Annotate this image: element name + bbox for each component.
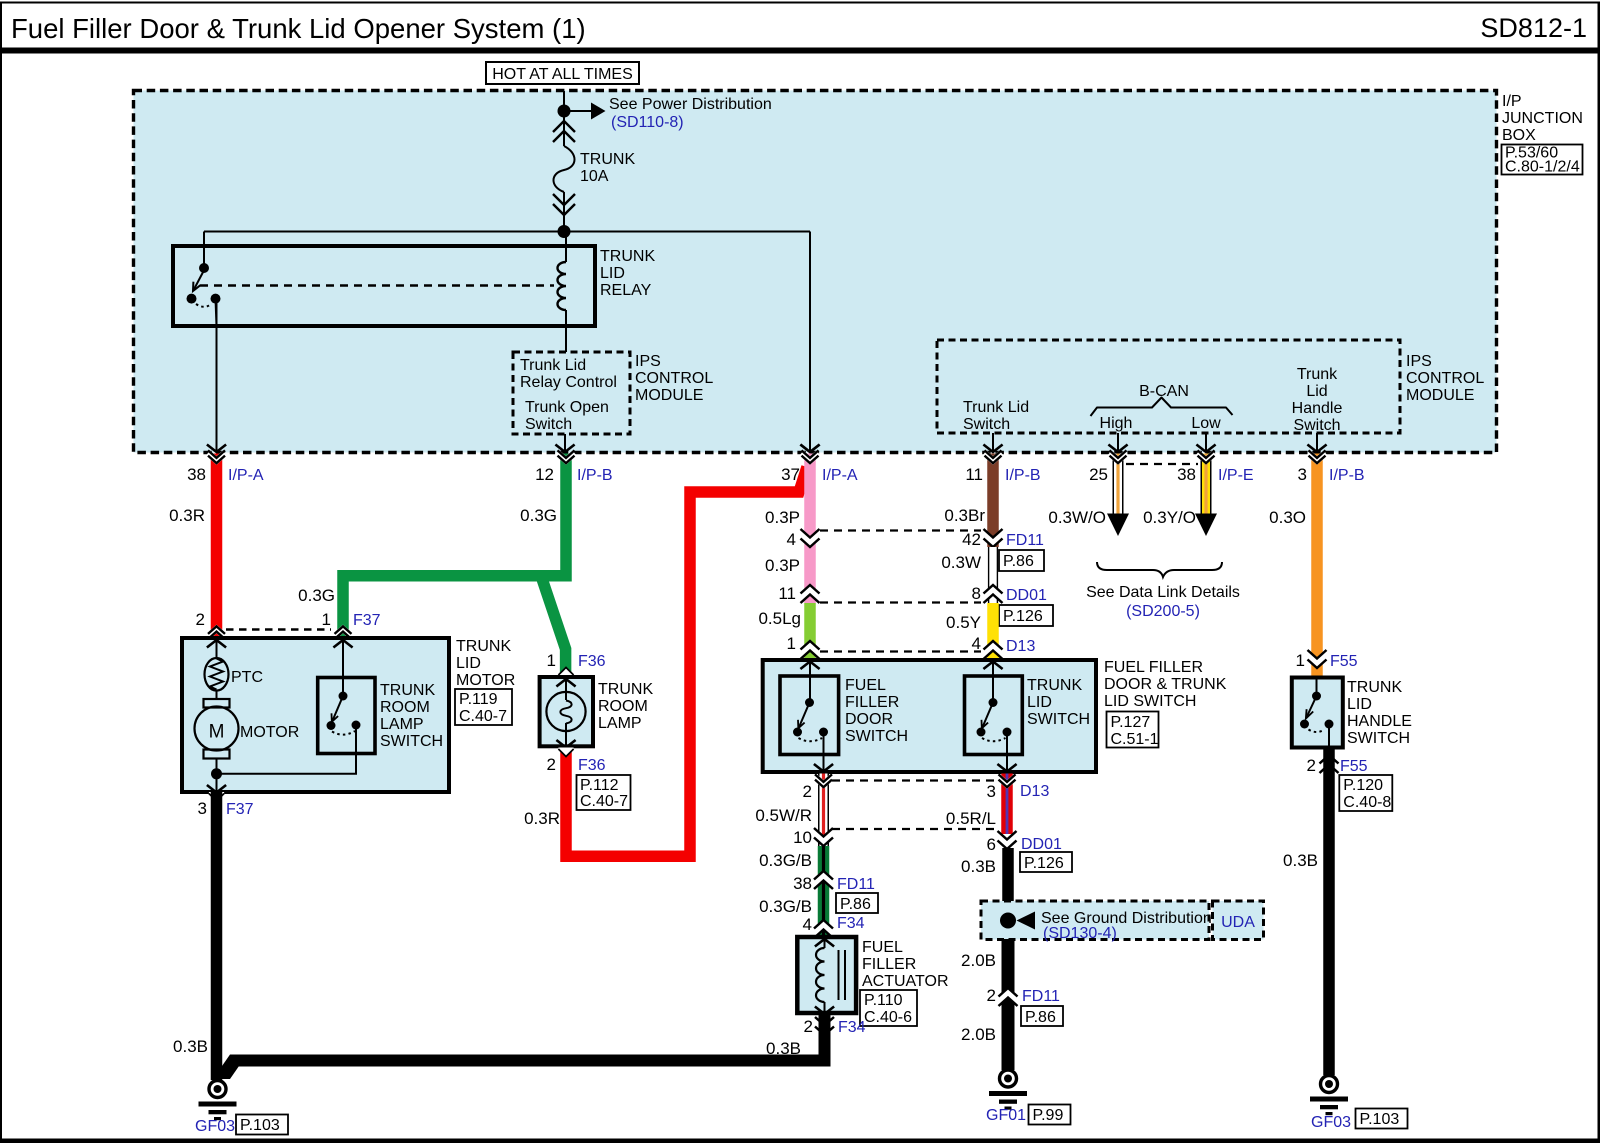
- arrow: see power distribution: [591, 103, 606, 120]
- svg-text:0.5Y: 0.5Y: [946, 613, 981, 632]
- svg-text:I/P-A: I/P-A: [228, 467, 264, 484]
- wire: drop to pin 37: [809, 232, 811, 453]
- svg-text:MOTOR: MOTOR: [240, 724, 299, 741]
- wire: 0.3W white: [988, 547, 998, 603]
- svg-text:38: 38: [187, 465, 206, 484]
- svg-text:CONTROL: CONTROL: [635, 370, 713, 387]
- svg-text:D13: D13: [1006, 638, 1035, 655]
- svg-text:Low: Low: [1191, 415, 1221, 432]
- wire: coil feed from junction: [565, 232, 567, 263]
- notch 2 F36: [558, 748, 573, 758]
- ground distribution box: [981, 901, 1212, 942]
- connector 2 FD11: [999, 988, 1018, 1006]
- dashed 25-38: [1126, 463, 1198, 465]
- svg-text:P.99: P.99: [1033, 1107, 1064, 1124]
- svg-text:HANDLE: HANDLE: [1347, 713, 1412, 730]
- svg-text:I/P-E: I/P-E: [1218, 467, 1254, 484]
- svg-text:JUNCTION: JUNCTION: [1502, 110, 1583, 127]
- wire: bus diagonal to ground: [213, 1055, 247, 1080]
- svg-text:2.0B: 2.0B: [961, 1025, 996, 1044]
- svg-text:0.3O: 0.3O: [1269, 508, 1306, 527]
- connector 4 F34: [814, 920, 833, 938]
- svg-text:ROOM: ROOM: [380, 699, 430, 716]
- svg-text:Fuel Filler Door & Trunk Lid O: Fuel Filler Door & Trunk Lid Opener Syst…: [11, 13, 586, 44]
- svg-text:C.40-7: C.40-7: [580, 793, 628, 810]
- trunk lid motor label: [455, 638, 515, 725]
- wire: pin1 stem: [342, 640, 344, 696]
- trunk room lamp box: [540, 677, 593, 746]
- connector 1 F55: [1308, 650, 1327, 668]
- svg-text:Switch: Switch: [525, 416, 572, 433]
- wire: 0.5W/R white-red: [818, 774, 829, 847]
- dashed row 11-8: [820, 601, 981, 603]
- svg-text:1: 1: [787, 634, 796, 653]
- svg-text:C.80-1/2/4: C.80-1/2/4: [1505, 159, 1580, 176]
- svg-text:0.3G/B: 0.3G/B: [759, 851, 812, 870]
- connector 4 chevrons: [801, 529, 820, 547]
- wire: motor to junction: [216, 759, 218, 774]
- svg-text:4: 4: [787, 530, 796, 549]
- relay switch arm: [194, 270, 205, 291]
- connector pin 3 F37: [209, 792, 224, 802]
- svg-text:0.3G/B: 0.3G/B: [759, 897, 812, 916]
- svg-text:RELAY: RELAY: [600, 282, 652, 299]
- svg-text:IPS: IPS: [1406, 353, 1432, 370]
- svg-text:3: 3: [198, 799, 207, 818]
- node: motor output junction: [211, 768, 222, 779]
- IPS control module box 1 (dashed): [513, 352, 630, 434]
- svg-text:GF03: GF03: [195, 1118, 235, 1135]
- wire: battery feed vertical: [563, 91, 565, 231]
- fuel filler actuator box: [797, 937, 856, 1013]
- svg-text:0.3R: 0.3R: [169, 506, 205, 525]
- I/P junction box (dashed, light blue): [134, 91, 1497, 453]
- wire: coil to IPS module: [565, 310, 567, 352]
- node: power junction top: [558, 105, 571, 118]
- HOT AT ALL TIMES tag: [486, 62, 639, 84]
- relay switch common contact: [199, 263, 209, 273]
- svg-text:(SD130-4): (SD130-4): [1043, 925, 1117, 942]
- svg-text:P.86: P.86: [1003, 553, 1034, 570]
- svg-text:P.112: P.112: [580, 777, 619, 794]
- actuator core: [839, 950, 846, 1000]
- connector 2 F34: [815, 1017, 834, 1035]
- svg-text:I/P-A: I/P-A: [822, 467, 858, 484]
- svg-text:42: 42: [962, 530, 981, 549]
- I/P junction box label: [1502, 93, 1583, 176]
- svg-text:DOOR & TRUNK: DOOR & TRUNK: [1104, 676, 1227, 693]
- svg-text:SWITCH: SWITCH: [1027, 711, 1090, 728]
- connector 10: [814, 828, 833, 846]
- svg-text:Switch: Switch: [1293, 417, 1340, 434]
- svg-text:C.51-1: C.51-1: [1111, 731, 1159, 748]
- svg-text:25: 25: [1089, 465, 1108, 484]
- arrow: see ground distribution: [1017, 912, 1036, 930]
- svg-text:LID SWITCH: LID SWITCH: [1104, 693, 1196, 710]
- PTC thermistor: [205, 658, 264, 691]
- dashed connector line F37: [226, 628, 331, 631]
- svg-text:I/P-B: I/P-B: [577, 467, 613, 484]
- svg-text:FUEL FILLER: FUEL FILLER: [1104, 659, 1203, 676]
- svg-text:Lid: Lid: [1306, 383, 1327, 400]
- wire: horizontal feed to relay and pin 37: [204, 231, 810, 233]
- svg-text:FD11: FD11: [1022, 988, 1060, 1005]
- svg-text:See Power Distribution: See Power Distribution: [609, 96, 772, 113]
- svg-text:LAMP: LAMP: [598, 715, 642, 732]
- svg-text:D13: D13: [1020, 783, 1049, 800]
- svg-text:0.5W/R: 0.5W/R: [755, 806, 812, 825]
- svg-text:(SD200-5): (SD200-5): [1126, 603, 1200, 620]
- svg-text:See Data Link Details: See Data Link Details: [1086, 584, 1240, 601]
- B-CAN brace: [1091, 398, 1233, 417]
- svg-text:8: 8: [972, 584, 981, 603]
- connector 1 chevrons: [801, 641, 820, 659]
- svg-text:High: High: [1100, 415, 1133, 432]
- trunk lid switch inner box: [965, 662, 1023, 771]
- svg-text:0.3W: 0.3W: [941, 553, 981, 572]
- svg-text:0.3R: 0.3R: [524, 809, 560, 828]
- svg-text:FD11: FD11: [837, 876, 875, 893]
- wire: 0.3B black trunk lid switch to ground: [1002, 848, 1014, 992]
- wire: 0.5Y yellow: [987, 603, 999, 658]
- data link brace: [1097, 562, 1222, 577]
- svg-text:0.3G: 0.3G: [520, 506, 557, 525]
- wire: 0.3G green pin 12 to trunk room lamp: [541, 576, 566, 677]
- svg-text:FUEL: FUEL: [862, 939, 903, 956]
- wire: 0.5R/L red-blue: [1001, 774, 1013, 835]
- wire: 0.3Y/O yellow-orange: [1195, 445, 1217, 537]
- fuel filler actuator label: [860, 939, 949, 1026]
- svg-text:MODULE: MODULE: [1406, 387, 1474, 404]
- wire: 0.3R red lamp to pin 37: [566, 467, 807, 856]
- svg-text:11: 11: [778, 584, 796, 603]
- svg-text:Trunk: Trunk: [1297, 366, 1338, 383]
- svg-text:F36: F36: [578, 653, 606, 670]
- wire: junction to pin 3: [216, 774, 218, 792]
- connector 8 DD01: [984, 585, 1003, 603]
- svg-text:0.3P: 0.3P: [765, 556, 800, 575]
- wire: branch to power distribution: [564, 110, 591, 112]
- svg-text:C.40-7: C.40-7: [459, 708, 507, 725]
- svg-text:Switch: Switch: [963, 416, 1010, 433]
- svg-text:0.3Y/O: 0.3Y/O: [1143, 508, 1196, 527]
- svg-text:TRUNK: TRUNK: [1347, 679, 1402, 696]
- wire: 0.3G/B green-black: [818, 846, 830, 937]
- svg-text:2.0B: 2.0B: [961, 951, 996, 970]
- trunk room lamp switch box: [318, 640, 443, 754]
- svg-text:SWITCH: SWITCH: [845, 728, 908, 745]
- wire: switch to junction: [217, 725, 357, 774]
- trunk lid motor box: [182, 638, 449, 792]
- svg-text:Trunk Lid: Trunk Lid: [520, 357, 586, 374]
- wire: pin2 stem: [216, 640, 218, 658]
- svg-text:37: 37: [781, 465, 800, 484]
- svg-text:MODULE: MODULE: [635, 387, 703, 404]
- svg-text:2: 2: [803, 782, 812, 801]
- dashed row 2-3: [832, 779, 998, 781]
- svg-text:SD812-1: SD812-1: [1480, 13, 1587, 43]
- wire: relay output to pin 38: [216, 298, 218, 452]
- svg-text:F55: F55: [1340, 758, 1368, 775]
- UDA box: [1213, 901, 1264, 940]
- connector chevrons below junction: [553, 121, 575, 142]
- svg-text:1: 1: [322, 610, 331, 629]
- actuator coil: [816, 948, 825, 1002]
- svg-text:F55: F55: [1330, 653, 1358, 670]
- relay K1: TRUNK LID RELAY box: [173, 232, 595, 353]
- svg-text:I/P: I/P: [1502, 93, 1522, 110]
- svg-text:P.126: P.126: [1003, 608, 1043, 625]
- trunk lid handle switch box: [1292, 678, 1343, 748]
- notch lamp pin 1 F36: [558, 667, 573, 677]
- svg-text:2: 2: [547, 755, 556, 774]
- svg-text:IPS: IPS: [635, 353, 661, 370]
- wire: 0.3R red pin 38: [211, 454, 223, 638]
- wire: b-can high stem: [1117, 433, 1119, 452]
- svg-text:LID: LID: [1027, 694, 1052, 711]
- IPS control module label 2: [1406, 353, 1484, 404]
- svg-text:2: 2: [804, 1017, 813, 1036]
- svg-text:F34: F34: [837, 915, 865, 932]
- wire: 0.3O orange: [1311, 454, 1323, 678]
- svg-text:FILLER: FILLER: [845, 694, 899, 711]
- svg-text:ACTUATOR: ACTUATOR: [862, 973, 949, 990]
- motor M1: [195, 699, 300, 759]
- svg-text:(SD110-8): (SD110-8): [611, 114, 684, 131]
- fuel filler door switch inner box: [780, 662, 839, 771]
- svg-text:4: 4: [803, 915, 812, 934]
- svg-text:F37: F37: [353, 612, 381, 629]
- svg-text:P.126: P.126: [1024, 855, 1064, 872]
- svg-text:P.103: P.103: [240, 1117, 280, 1134]
- wire: 0.3B black motor to ground: [211, 792, 223, 1081]
- dashed row 4-42: [820, 529, 981, 531]
- wire: handle switch stem: [1316, 433, 1318, 452]
- ground GF03 left: [199, 1081, 237, 1121]
- ground GF01: [989, 1070, 1027, 1110]
- svg-text:0.5R/L: 0.5R/L: [946, 809, 996, 828]
- svg-text:DD01: DD01: [1021, 836, 1062, 853]
- svg-text:3: 3: [987, 782, 996, 801]
- svg-text:BOX: BOX: [1502, 127, 1536, 144]
- svg-text:LID: LID: [600, 265, 625, 282]
- svg-text:FUEL: FUEL: [845, 677, 886, 694]
- IPS control module label 1: [635, 353, 713, 404]
- svg-text:SWITCH: SWITCH: [380, 733, 443, 750]
- svg-text:12: 12: [535, 465, 554, 484]
- svg-text:C.40-6: C.40-6: [864, 1009, 912, 1026]
- relay coil: [558, 262, 567, 310]
- connector 2 F55: [1320, 755, 1339, 773]
- svg-text:Trunk Open: Trunk Open: [525, 399, 609, 416]
- svg-text:0.3P: 0.3P: [765, 508, 800, 527]
- fuel filler door & trunk lid switch box: [763, 660, 1096, 772]
- svg-text:2: 2: [1307, 756, 1316, 775]
- svg-text:6: 6: [987, 835, 996, 854]
- svg-text:UDA: UDA: [1221, 914, 1255, 931]
- svg-text:4: 4: [972, 634, 981, 653]
- svg-text:10: 10: [793, 828, 812, 847]
- svg-text:1: 1: [547, 651, 556, 670]
- svg-text:ROOM: ROOM: [598, 698, 648, 715]
- connector 38 FD11: [814, 871, 833, 889]
- svg-text:GF01: GF01: [986, 1107, 1026, 1124]
- wire: trunk lid switch stem: [992, 433, 994, 452]
- svg-text:P.86: P.86: [1025, 1009, 1056, 1026]
- relay mechanical dashed link: [200, 284, 554, 286]
- wire: drop to relay switch: [203, 232, 205, 269]
- fuse TRUNK 10A: [554, 146, 575, 192]
- trunk room lamp label: [598, 681, 653, 732]
- svg-text:P.86: P.86: [840, 896, 871, 913]
- svg-text:TRUNK: TRUNK: [580, 151, 635, 168]
- svg-text:TRUNK: TRUNK: [598, 681, 653, 698]
- svg-text:SWITCH: SWITCH: [1347, 730, 1410, 747]
- svg-text:0.3B: 0.3B: [1283, 851, 1318, 870]
- svg-text:38: 38: [1177, 465, 1196, 484]
- svg-text:P.119: P.119: [459, 691, 498, 708]
- relay switch travel arc: [196, 304, 212, 307]
- svg-text:3: 3: [1298, 465, 1307, 484]
- wire: trunk open switch to pin 12: [564, 434, 566, 452]
- wire: 0.3P pink pin 37: [804, 454, 816, 604]
- svg-text:I/P-B: I/P-B: [1329, 467, 1365, 484]
- svg-text:DD01: DD01: [1006, 587, 1047, 604]
- svg-text:GF03: GF03: [1311, 1114, 1351, 1131]
- connector 42 FD11: [984, 529, 1003, 547]
- node: relay feed junction: [558, 225, 571, 238]
- ground GF03 right: [1310, 1076, 1348, 1116]
- svg-text:TRUNK: TRUNK: [1027, 677, 1082, 694]
- svg-text:C.40-8: C.40-8: [1343, 794, 1391, 811]
- svg-text:0.3Br: 0.3Br: [944, 506, 985, 525]
- svg-text:Trunk Lid: Trunk Lid: [963, 399, 1029, 416]
- connector 11 chevrons: [801, 585, 820, 603]
- IPS control module box 2 (dashed): [937, 340, 1400, 434]
- svg-text:LAMP: LAMP: [380, 716, 424, 733]
- svg-text:DOOR: DOOR: [845, 711, 893, 728]
- svg-text:FILLER: FILLER: [862, 956, 916, 973]
- relay label: [600, 248, 655, 299]
- svg-text:2: 2: [987, 986, 996, 1005]
- wire: 0.3W/O white-orange: [1107, 445, 1129, 537]
- switch box label: [1104, 659, 1227, 748]
- svg-text:CONTROL: CONTROL: [1406, 370, 1484, 387]
- svg-text:0.3G: 0.3G: [298, 586, 335, 605]
- svg-text:P.120: P.120: [1343, 777, 1383, 794]
- svg-text:LID: LID: [456, 655, 481, 672]
- svg-text:P.127: P.127: [1111, 714, 1151, 731]
- svg-text:MOTOR: MOTOR: [456, 672, 515, 689]
- svg-text:TRUNK: TRUNK: [600, 248, 655, 265]
- svg-text:P.103: P.103: [1360, 1111, 1400, 1128]
- svg-text:F36: F36: [578, 757, 606, 774]
- svg-text:HOT AT ALL TIMES: HOT AT ALL TIMES: [492, 66, 633, 83]
- svg-text:F34: F34: [838, 1019, 866, 1036]
- wire: 2.0B below junction: [1002, 939, 1015, 1070]
- dashed row 1-4: [820, 650, 981, 652]
- svg-text:0.3B: 0.3B: [173, 1037, 208, 1056]
- wire: 0.3B actuator to ground bus: [236, 1013, 825, 1061]
- lamp L1: [546, 692, 585, 731]
- dashed row 10-6: [832, 828, 998, 830]
- svg-text:38: 38: [793, 874, 812, 893]
- relay switch contact output: [211, 294, 221, 304]
- svg-text:0.3W/O: 0.3W/O: [1048, 508, 1106, 527]
- svg-text:B-CAN: B-CAN: [1139, 383, 1189, 400]
- relay switch contact left: [187, 294, 197, 304]
- wire: 0.5Lg light green: [804, 603, 816, 658]
- svg-text:2: 2: [196, 610, 205, 629]
- connector chevrons above relay node: [553, 194, 575, 215]
- svg-text:PTC: PTC: [231, 669, 263, 686]
- wire: 0.3B handle switch to ground: [1323, 747, 1335, 1075]
- svg-text:TRUNK: TRUNK: [456, 638, 511, 655]
- svg-text:0.5Lg: 0.5Lg: [758, 609, 801, 628]
- wire: 0.3Br brown pin 11: [987, 454, 999, 548]
- svg-text:0.3B: 0.3B: [961, 857, 996, 876]
- svg-text:P.110: P.110: [864, 992, 903, 1009]
- connector 6 DD01: [998, 831, 1017, 849]
- svg-text:TRUNK: TRUNK: [380, 682, 435, 699]
- svg-text:Handle: Handle: [1292, 400, 1343, 417]
- node: ground junction: [1000, 913, 1016, 929]
- connector 4 D13: [984, 641, 1003, 659]
- svg-text:LID: LID: [1347, 696, 1372, 713]
- svg-text:Relay Control: Relay Control: [520, 374, 617, 391]
- svg-text:M: M: [209, 722, 225, 743]
- svg-text:I/P-B: I/P-B: [1005, 467, 1041, 484]
- svg-text:F37: F37: [226, 801, 254, 818]
- wire: b-can low stem: [1205, 433, 1207, 452]
- svg-text:11: 11: [965, 465, 983, 484]
- svg-text:10A: 10A: [580, 168, 609, 185]
- trunk lid handle switch label: [1347, 679, 1412, 747]
- svg-text:FD11: FD11: [1006, 532, 1044, 549]
- svg-text:1: 1: [1296, 651, 1305, 670]
